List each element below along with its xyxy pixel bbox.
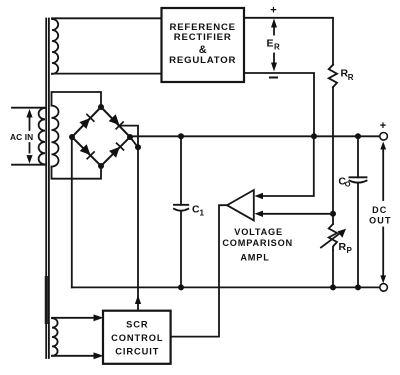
AC IN bottom lead: [12, 164, 45, 166]
svg-text:OUT: OUT: [369, 215, 392, 225]
diode D2 (top-right edge): [109, 114, 123, 129]
transformer primary winding: [39, 108, 45, 165]
potentiometer RP: [329, 224, 337, 250]
bridge vertex dots: [69, 104, 133, 169]
- rail: [72, 286, 380, 288]
wire: node A to op-amp lower input: [263, 213, 334, 215]
- output terminal: [380, 284, 388, 292]
SCR control box: [103, 311, 171, 364]
svg-text:VOLTAGE: VOLTAGE: [234, 227, 283, 237]
transformer core: [46, 19, 49, 359]
wire: op-amp output down to SCR box: [172, 205, 227, 336]
DC OUT arrow down: [382, 228, 384, 277]
junction dot C1 top: [178, 133, 184, 139]
wire: + rail to op-amp upper input: [263, 136, 314, 196]
svg-text:DC: DC: [372, 205, 387, 215]
svg-text:SCR: SCR: [126, 320, 148, 330]
ER arrow down: [273, 54, 275, 63]
ER arrow up: [273, 27, 275, 35]
svg-text:CONTROL: CONTROL: [111, 333, 163, 343]
+ output terminal: [380, 133, 388, 141]
junction dot RP bottom: [330, 284, 336, 290]
AC IN top lead: [12, 107, 45, 109]
resistor RR: [329, 65, 337, 88]
svg-text:1: 1: [200, 209, 205, 218]
DC OUT label: [369, 205, 392, 225]
wire: top winding to reference box (lower): [52, 73, 162, 75]
SCR gate node dot: [135, 144, 141, 150]
DC OUT arrow up: [382, 148, 384, 200]
transformer secondary winding T-top: [52, 19, 58, 74]
junction dot CO bottom: [355, 284, 361, 290]
SCR gate arrowhead: [135, 295, 141, 304]
svg-text:CIRCUIT: CIRCUIT: [115, 347, 159, 357]
junction dot ref-minus on + rail: [311, 133, 317, 139]
svg-text:P: P: [347, 246, 353, 255]
wire: bottom winding to SCR box (upper, with arrow): [52, 317, 94, 319]
op-amp labels: [222, 227, 293, 263]
wire: bridge minus vertex down to - rail: [71, 137, 73, 287]
junction dot CO top: [355, 133, 361, 139]
svg-text:R: R: [339, 241, 347, 253]
svg-text:R: R: [348, 73, 354, 82]
+ rail: [131, 135, 380, 137]
SCR gate diagonal from right vertex: [131, 138, 138, 147]
capacitor C1: [180, 136, 182, 205]
svg-text:&: &: [199, 44, 207, 56]
wire: reference - output down to + rail: [244, 73, 314, 136]
transformer winding T-bottom: [52, 318, 58, 356]
diode D1 (left-top edge): [79, 114, 93, 128]
svg-text:AMPL: AMPL: [240, 253, 269, 263]
svg-text:R: R: [274, 43, 280, 52]
wire: RR down through + rail to node A: [332, 87, 334, 214]
svg-text:REGULATOR: REGULATOR: [169, 55, 236, 66]
minus sign under reference output: [270, 77, 277, 79]
AC IN label: [10, 132, 33, 142]
SCR gate tap from bridge: [121, 126, 139, 148]
wire: top winding to reference box (upper): [52, 17, 162, 19]
svg-text:AC IN: AC IN: [10, 132, 33, 142]
transformer secondary winding T-mid: [52, 106, 59, 167]
reference rectifier box: [162, 8, 245, 82]
wire: node A to RP: [332, 214, 334, 224]
ER label: [267, 38, 281, 52]
wire: mid winding bottom to bridge bottom vertex: [52, 166, 102, 179]
wire: RP to - rail: [332, 250, 334, 287]
svg-text:+: +: [270, 5, 276, 17]
diode D3 (left-bottom edge): [80, 144, 94, 159]
wire: reference + output to RR: [244, 18, 333, 65]
junction dot C1 bottom: [178, 284, 184, 290]
wire: bottom winding to SCR box (lower, with arrow): [52, 355, 94, 357]
AC IN double arrow: [29, 117, 31, 131]
op-amp U1 triangle: [227, 190, 254, 220]
capacitor CO: [357, 136, 359, 177]
svg-text:O: O: [345, 180, 351, 189]
wire: mid winding top to bridge top vertex: [52, 92, 102, 107]
svg-text:RECTIFIER: RECTIFIER: [174, 32, 232, 43]
diode D4 (bottom-right edge): [109, 143, 123, 158]
bridge rectifier diamond: [72, 107, 130, 166]
ER + sign: [270, 5, 276, 17]
node A dot (RR/RP/op-amp input junction): [330, 211, 336, 217]
SCR gate wire down to box: [137, 147, 139, 310]
svg-text:E: E: [267, 38, 274, 50]
svg-text:+: +: [380, 120, 386, 132]
svg-text:COMPARISON: COMPARISON: [222, 238, 293, 248]
